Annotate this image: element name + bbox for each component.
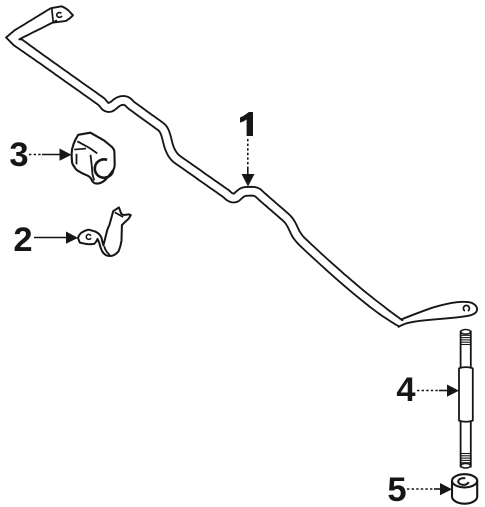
svg-text:2: 2 xyxy=(13,221,32,259)
svg-text:5: 5 xyxy=(387,471,406,507)
svg-text:4: 4 xyxy=(396,371,415,409)
svg-text:3: 3 xyxy=(9,136,28,174)
